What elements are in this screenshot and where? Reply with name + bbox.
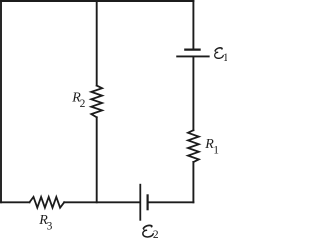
wire: right vertical R1 to bottom corner: [192, 162, 194, 202]
resistor R1: [188, 130, 199, 162]
battery E1 long plate: [177, 55, 209, 57]
label E2 (script EMF symbol): [143, 225, 159, 240]
wire: right vertical battery E1 to R1: [192, 57, 194, 130]
wire: right vertical top segment to battery E1: [192, 1, 194, 48]
svg-text:3: 3: [47, 221, 53, 233]
svg-text:1: 1: [213, 144, 219, 156]
label R3: [38, 213, 52, 233]
wire: bottom segment R3 to battery E2: [64, 201, 139, 203]
wire: top horizontal: [1, 0, 193, 2]
label R1: [204, 137, 219, 156]
battery E2 long plate: [139, 185, 141, 220]
wire: middle vertical R2 to bottom: [96, 117, 98, 202]
label E1 (script EMF symbol): [215, 48, 229, 64]
resistor R3: [30, 197, 65, 208]
svg-text:2: 2: [153, 229, 159, 241]
svg-text:1: 1: [223, 52, 227, 64]
battery E2 short plate: [147, 195, 149, 209]
resistor R2: [91, 86, 102, 118]
battery E1 short plate: [185, 48, 199, 50]
wire: middle vertical top segment to R2: [96, 1, 98, 86]
wire: bottom segment battery E2 to right corner: [149, 201, 194, 203]
label R2: [71, 90, 85, 110]
wire: bottom-left segment to R3: [1, 201, 30, 203]
wire: left vertical: [0, 1, 2, 202]
svg-text:2: 2: [80, 98, 86, 110]
